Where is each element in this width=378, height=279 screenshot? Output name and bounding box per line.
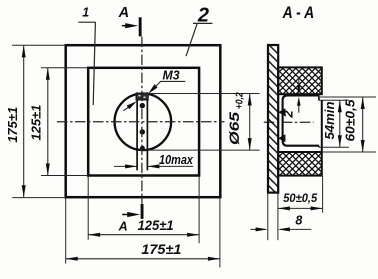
svg-text:10max: 10max bbox=[159, 153, 194, 167]
svg-text:175±1: 175±1 bbox=[5, 107, 20, 143]
svg-text:60±0,5: 60±0,5 bbox=[343, 98, 357, 141]
svg-text:A - A: A - A bbox=[282, 3, 314, 22]
svg-text:2: 2 bbox=[281, 110, 296, 119]
svg-text:A: A bbox=[118, 220, 128, 234]
svg-text:Ø65: Ø65 bbox=[227, 111, 242, 145]
svg-text:8: 8 bbox=[295, 214, 302, 228]
svg-text:+0,2: +0,2 bbox=[235, 92, 246, 109]
svg-text:125±1: 125±1 bbox=[28, 105, 43, 141]
svg-text:54min: 54min bbox=[323, 101, 337, 139]
svg-text:2: 2 bbox=[197, 4, 209, 26]
svg-text:125±1: 125±1 bbox=[138, 218, 174, 233]
svg-text:M3: M3 bbox=[163, 69, 180, 83]
svg-text:175±1: 175±1 bbox=[141, 242, 181, 257]
svg-text:1: 1 bbox=[82, 6, 89, 20]
svg-text:50±0,5: 50±0,5 bbox=[283, 191, 317, 205]
svg-text:A: A bbox=[118, 5, 129, 21]
